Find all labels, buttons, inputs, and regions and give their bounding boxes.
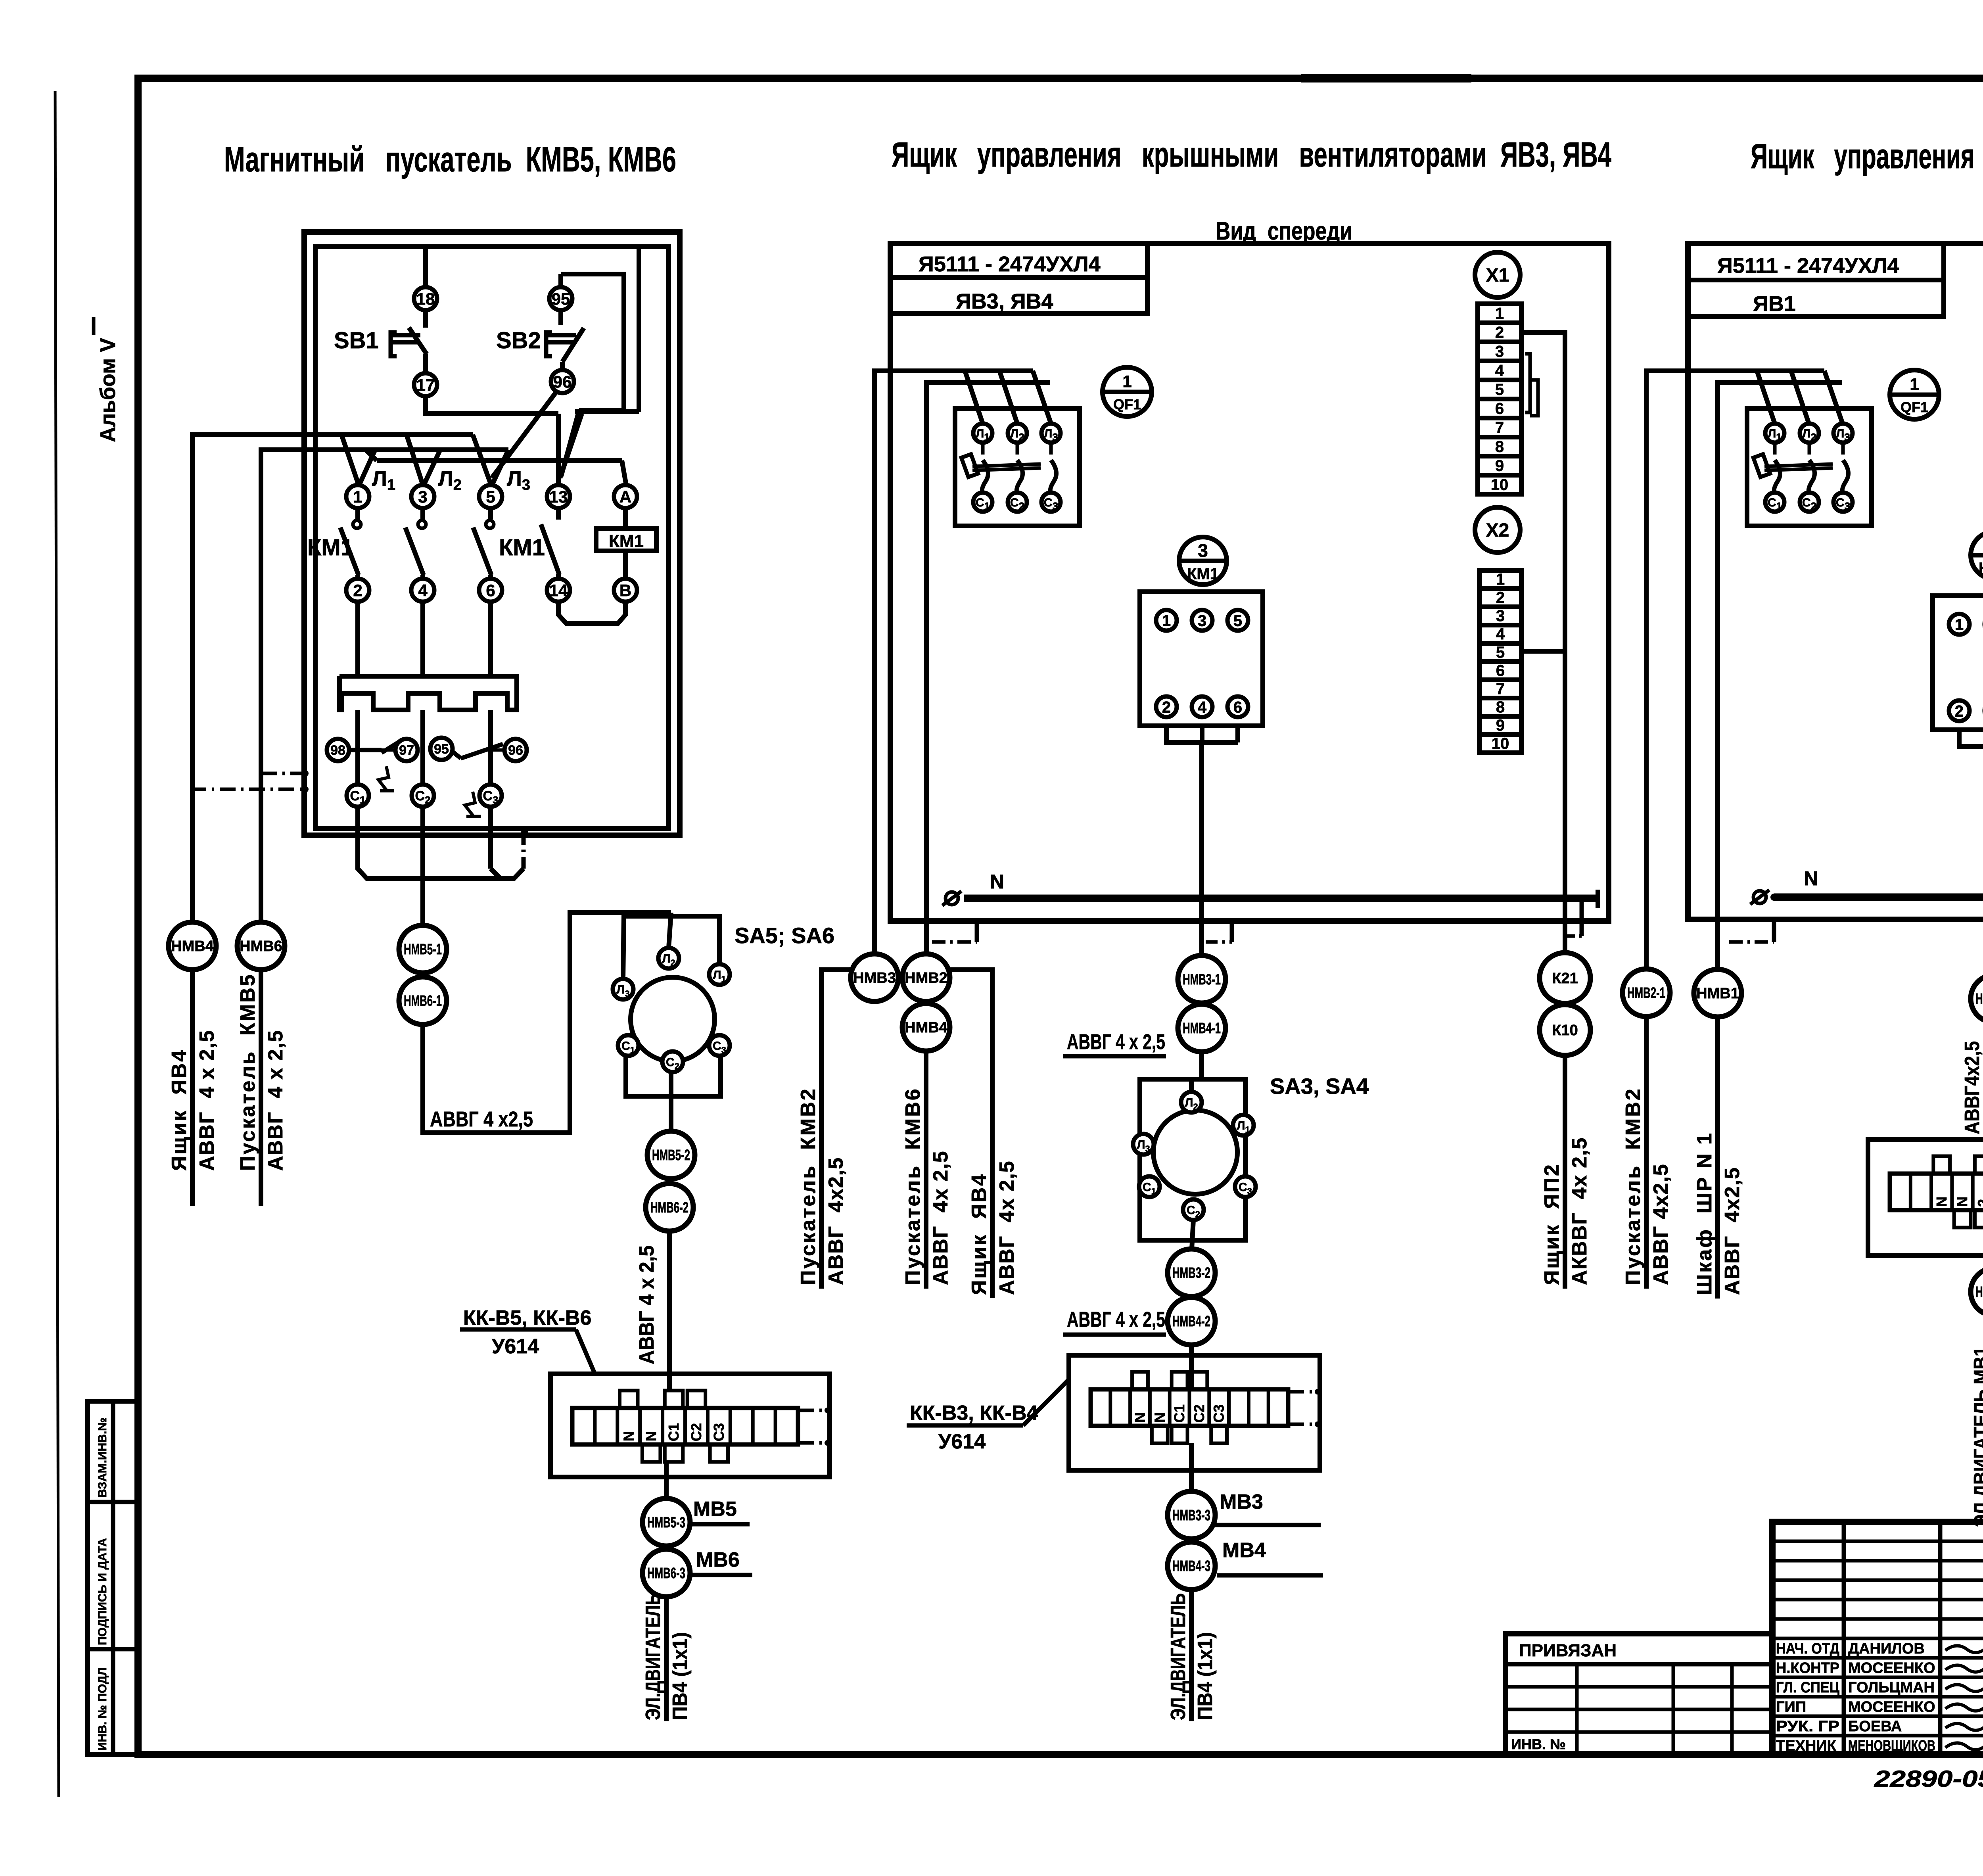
svg-text:НАЧ. ОТД: НАЧ. ОТД bbox=[1776, 1640, 1839, 1657]
svg-text:АВВГ 4х2,5: АВВГ 4х2,5 bbox=[825, 1157, 848, 1285]
svg-text:N: N bbox=[620, 1431, 637, 1441]
svg-text:НМВ4-1: НМВ4-1 bbox=[1183, 1020, 1221, 1037]
terminal 17 bbox=[414, 373, 437, 396]
svg-text:ПРИВЯЗАН: ПРИВЯЗАН bbox=[1519, 1641, 1617, 1660]
cable label Ящик ЯВ4 / АВВГ 4х2,5 bbox=[190, 970, 195, 1206]
junction dot on enclosure bottom bbox=[521, 829, 528, 836]
svg-text:2: 2 bbox=[353, 581, 362, 600]
svg-text:Ящик управления крышными: Ящик управления крышными вентиляторами Я… bbox=[892, 135, 1611, 174]
terminal 2 bbox=[346, 579, 369, 602]
N bus (middle cabinet) bbox=[964, 895, 1598, 902]
terminal 1 bbox=[346, 485, 369, 508]
terminal block КК-В5,КК-В6 У614 bbox=[550, 1374, 830, 1477]
svg-text:6: 6 bbox=[1496, 662, 1505, 679]
cable marker К10 bbox=[1540, 1005, 1590, 1055]
svg-text:4: 4 bbox=[418, 581, 428, 600]
svg-text:N: N bbox=[1954, 1197, 1970, 1207]
svg-text:ПВ4 (1х1): ПВ4 (1х1) bbox=[669, 1632, 692, 1720]
relay aux contact 98-97 (NC) bbox=[327, 739, 349, 761]
cable label Пускатель КМВ5 / АВВГ 4х2,5 bbox=[259, 970, 263, 1206]
svg-text:N: N bbox=[1151, 1412, 1168, 1423]
terminal 13 bbox=[547, 485, 570, 508]
N bus earth symbol (right) bbox=[1753, 891, 1766, 903]
svg-text:Альбом V: Альбом V bbox=[96, 338, 120, 442]
cabinet ЯВ1 outer box bbox=[1688, 244, 1983, 919]
svg-text:97: 97 bbox=[399, 743, 414, 758]
svg-text:Пускатель КМВ2: Пускатель КМВ2 bbox=[797, 1087, 820, 1285]
svg-text:ГЛ. СПЕЦ: ГЛ. СПЕЦ bbox=[1776, 1679, 1839, 1696]
cable marker НМВ6-2 bbox=[646, 1184, 693, 1231]
cable marker НМВ3-2 bbox=[1168, 1249, 1215, 1297]
svg-text:N: N bbox=[1804, 867, 1818, 890]
svg-text:1: 1 bbox=[1955, 616, 1964, 633]
svg-text:С2: С2 bbox=[1191, 1404, 1207, 1423]
wire to НМВ5-1 bbox=[420, 879, 425, 925]
terminal strip X2 (middle) bbox=[1479, 570, 1521, 753]
svg-text:НМВ4-3: НМВ4-3 bbox=[1172, 1558, 1210, 1575]
feed bus 3 to coil terminal A bbox=[377, 458, 622, 463]
cable marker НМВ4 bbox=[169, 922, 216, 970]
svg-text:N: N bbox=[990, 871, 1004, 893]
svg-text:НМВ3-3: НМВ3-3 bbox=[1172, 1507, 1210, 1524]
svg-text:У614: У614 bbox=[492, 1335, 539, 1358]
svg-text:Пускатель КМВ5: Пускатель КМВ5 bbox=[236, 973, 259, 1171]
svg-text:КМ1: КМ1 bbox=[499, 535, 545, 560]
svg-text:АВВГ 4 х2,5: АВВГ 4 х2,5 bbox=[430, 1107, 533, 1131]
svg-text:1: 1 bbox=[1162, 612, 1171, 629]
left margin stamp table bbox=[88, 1401, 138, 1755]
svg-text:5: 5 bbox=[1233, 612, 1242, 629]
svg-text:АВВГ 4х2,5: АВВГ 4х2,5 bbox=[1649, 1163, 1672, 1285]
cable marker НМВ6-3 bbox=[642, 1549, 690, 1597]
svg-text:МОСЕЕНКО: МОСЕЕНКО bbox=[1848, 1699, 1935, 1715]
svg-text:АВВГ 4 х 2,5: АВВГ 4 х 2,5 bbox=[264, 1030, 287, 1171]
feed bus 2 from cable НМВ6 bbox=[261, 450, 508, 922]
svg-text:SA5; SA6: SA5; SA6 bbox=[735, 923, 834, 948]
svg-text:ГИП: ГИП bbox=[1776, 1699, 1806, 1715]
wire block to НМВ3-3 bbox=[1189, 1470, 1194, 1492]
svg-text:НМВ3: НМВ3 bbox=[853, 970, 896, 986]
svg-text:6: 6 bbox=[486, 581, 495, 600]
cabinet ЯВ3/ЯВ4 outer box bbox=[890, 244, 1609, 921]
svg-text:Шкаф ШР N 1: Шкаф ШР N 1 bbox=[1693, 1132, 1716, 1295]
svg-text:1: 1 bbox=[1496, 571, 1505, 588]
cable marker НМВ3 bbox=[851, 954, 898, 1001]
cable marker НМВ4-1 bbox=[1178, 1004, 1225, 1052]
wire A to coil bbox=[623, 508, 628, 529]
svg-text:НМВ4: НМВ4 bbox=[171, 938, 214, 955]
wire К10 down / Ящик ЯП2 label bbox=[1563, 1055, 1567, 1289]
svg-text:ДАНИЛОВ: ДАНИЛОВ bbox=[1848, 1640, 1925, 1657]
cable marker НМВ3-1 bbox=[1178, 955, 1225, 1003]
svg-text:К21: К21 bbox=[1552, 970, 1578, 987]
junction tick on N bus bbox=[1563, 890, 1567, 898]
svg-text:3: 3 bbox=[1496, 607, 1505, 625]
svg-text:2: 2 bbox=[1495, 324, 1504, 341]
svg-text:НМВ5-1: НМВ5-1 bbox=[404, 941, 442, 958]
svg-text:НМВ3-1: НМВ3-1 bbox=[1183, 971, 1221, 988]
dash-dot cable boundary below cabinet (middle left) bbox=[975, 921, 979, 942]
svg-text:КК-В5, КК-В6: КК-В5, КК-В6 bbox=[463, 1306, 591, 1329]
thermal overload relay heater block bbox=[339, 676, 517, 710]
svg-text:НМВ2: НМВ2 bbox=[905, 970, 947, 986]
feed wire cable НМВ3 into cabinet bbox=[875, 371, 1033, 953]
contactor KM1 aux contact 13-14 bbox=[541, 508, 559, 579]
svg-text:22890-05: 22890-05 bbox=[1874, 1766, 1983, 1792]
terminal 18 bbox=[414, 287, 437, 310]
wire: 96 diagonal to terminal 5 bbox=[492, 392, 556, 478]
svg-text:17: 17 bbox=[416, 376, 435, 394]
svg-text:АКВВГ 4х 2,5: АКВВГ 4х 2,5 bbox=[1568, 1137, 1591, 1285]
dash-dot cable boundary below cabinet (middle centre) bbox=[1230, 921, 1234, 942]
svg-text:ЯВ1: ЯВ1 bbox=[1753, 292, 1796, 316]
svg-text:96: 96 bbox=[508, 743, 523, 758]
svg-text:Пускатель КМВ2: Пускатель КМВ2 bbox=[1622, 1087, 1645, 1285]
wire НМВ4-1 to switch SA3 bbox=[1199, 1052, 1204, 1079]
svg-text:КМ1: КМ1 bbox=[1187, 565, 1219, 583]
svg-text:10: 10 bbox=[1491, 476, 1509, 493]
svg-text:3: 3 bbox=[1495, 343, 1504, 360]
svg-text:АВВГ 4х2,5: АВВГ 4х2,5 bbox=[1721, 1167, 1744, 1295]
svg-text:МВ4: МВ4 bbox=[1222, 1539, 1266, 1562]
svg-text:9: 9 bbox=[1496, 717, 1505, 734]
wire НМВ4-2 to block КК-В3 bbox=[1189, 1345, 1194, 1391]
svg-text:X1: X1 bbox=[1486, 265, 1509, 286]
cable marker НМВ1-2 bbox=[1971, 1268, 1983, 1316]
svg-text:ЭЛ.ДВИГАТЕЛЬ МВ1: ЭЛ.ДВИГАТЕЛЬ МВ1 bbox=[1970, 1347, 1983, 1527]
terminal strip X1 (middle) bbox=[1478, 304, 1521, 494]
svg-text:ЭЛ.ДВИГАТЕЛЬ: ЭЛ.ДВИГАТЕЛЬ bbox=[642, 1593, 665, 1720]
paper left edge line bbox=[55, 91, 59, 1797]
terminal C1 bbox=[347, 785, 369, 807]
svg-text:Пускатель КМВ6: Пускатель КМВ6 bbox=[901, 1087, 924, 1285]
terminal block КК-В1 У614 bbox=[1868, 1139, 1983, 1256]
svg-text:МВ5: МВ5 bbox=[693, 1498, 737, 1521]
svg-text:КМ1: КМ1 bbox=[307, 535, 353, 560]
thermal symbol 1 bbox=[378, 766, 389, 791]
svg-text:К10: К10 bbox=[1552, 1022, 1578, 1039]
svg-text:КМ1: КМ1 bbox=[609, 531, 644, 551]
svg-text:НМВ5-3: НМВ5-3 bbox=[647, 1514, 685, 1531]
svg-text:9: 9 bbox=[1495, 457, 1504, 474]
svg-text:МВ3: МВ3 bbox=[1220, 1490, 1263, 1513]
wire НМВ4 drop bbox=[924, 1051, 928, 1289]
svg-text:НМВ1-2: НМВ1-2 bbox=[1975, 1284, 1983, 1301]
terminal C3 bbox=[479, 785, 502, 807]
terminal 14 bbox=[547, 579, 570, 602]
contactor KM1 with terminals (middle) bbox=[1140, 592, 1263, 726]
svg-text:1: 1 bbox=[1122, 372, 1131, 391]
stub top edge to Л2 (SA3) bbox=[1189, 1079, 1194, 1093]
svg-text:ГОЛЬЦМАН: ГОЛЬЦМАН bbox=[1848, 1679, 1935, 1696]
svg-text:КК-В3, КК-В4: КК-В3, КК-В4 bbox=[910, 1402, 1038, 1425]
feed wire cable НМВ2/НМВ4 into cabinet bbox=[926, 382, 1050, 953]
feed diagonals into breaker (right) bbox=[1757, 371, 1775, 424]
svg-text:1: 1 bbox=[1495, 305, 1504, 322]
N bus (right cabinet) bbox=[1774, 894, 1983, 901]
svg-text:5: 5 bbox=[1496, 644, 1505, 661]
wire stub НМВ3 to drop bbox=[821, 970, 850, 1289]
rotary switch SA3,SA4 bbox=[1153, 1110, 1237, 1194]
thermal symbol 2 bbox=[465, 792, 475, 816]
X1 connector hooks bbox=[1525, 354, 1530, 412]
terminal strip circle X2 (middle) bbox=[1475, 507, 1520, 552]
svg-text:2: 2 bbox=[1955, 702, 1964, 720]
svg-text:98: 98 bbox=[330, 743, 345, 758]
svg-text:ЭЛ.ДВИГАТЕЛЬ: ЭЛ.ДВИГАТЕЛЬ bbox=[1167, 1593, 1190, 1720]
wire X1 row2 to K21 bbox=[1521, 332, 1565, 953]
feed wire cable НМВ1 into cabinet (right) bbox=[1718, 382, 1842, 969]
svg-text:НМВ5-2: НМВ5-2 bbox=[652, 1147, 690, 1164]
inner bottom wire to SB2 area bbox=[426, 411, 557, 416]
cable marker НМВ6 bbox=[237, 922, 285, 970]
terminal block КК-В3,КК-В4 У614 bbox=[1069, 1355, 1320, 1470]
svg-text:2: 2 bbox=[1162, 698, 1171, 716]
relay aux contact 95-96 (NO) bbox=[430, 738, 453, 760]
terminal A bbox=[614, 485, 637, 508]
push-button SB1 (stop, NC) bbox=[391, 311, 427, 373]
type label box Я5111-2474УХЛ4 / ЯВ3,ЯВ4 bbox=[890, 244, 1147, 313]
terminal C2 bbox=[412, 785, 434, 807]
svg-text:У614: У614 bbox=[938, 1430, 986, 1453]
svg-text:7: 7 bbox=[1496, 680, 1505, 698]
terminal 4 bbox=[411, 579, 434, 602]
starter enclosure inner box bbox=[315, 247, 669, 829]
svg-text:КМ1: КМ1 bbox=[1979, 560, 1983, 577]
svg-text:МЕНОВЩИКОВ: МЕНОВЩИКОВ bbox=[1848, 1738, 1935, 1754]
svg-text:8: 8 bbox=[1496, 698, 1505, 716]
svg-text:А: А bbox=[619, 487, 631, 506]
wires through relay down to C terminals bbox=[355, 710, 360, 784]
terminal strip circle X1 (middle) bbox=[1475, 252, 1520, 297]
svg-text:18: 18 bbox=[416, 290, 435, 308]
cable marker НМВ2-1 bbox=[1622, 969, 1670, 1017]
svg-text:АВВГ 4 х 2,5: АВВГ 4 х 2,5 bbox=[635, 1245, 658, 1364]
type label box Я5111-2474УХЛ4 / ЯВ1 bbox=[1688, 244, 1944, 317]
wire to motor / эл.двигатель ПВ4(1х1) (middle) bbox=[1189, 1590, 1194, 1721]
terminal 5 bbox=[479, 485, 502, 508]
svg-text:НМВ6-3: НМВ6-3 bbox=[647, 1565, 685, 1582]
svg-text:НМВ1-1: НМВ1-1 bbox=[1975, 991, 1983, 1007]
svg-text:НМВ3-2: НМВ3-2 bbox=[1172, 1265, 1210, 1281]
svg-text:5: 5 bbox=[1495, 381, 1504, 398]
svg-text:SB1: SB1 bbox=[334, 328, 379, 353]
cable marker НМВ1 bbox=[1694, 969, 1741, 1017]
svg-text:НМВ6-2: НМВ6-2 bbox=[650, 1199, 688, 1216]
svg-text:7: 7 bbox=[1495, 419, 1504, 436]
svg-text:4: 4 bbox=[1496, 625, 1505, 643]
svg-text:N: N bbox=[1933, 1197, 1950, 1207]
feed bus 1 from cable НМВ4 bbox=[192, 435, 473, 922]
wire: 18 terminal up to inner box top bbox=[423, 247, 428, 287]
svg-text:3: 3 bbox=[1198, 612, 1206, 629]
cable marker НМВ5-1 bbox=[399, 925, 447, 973]
svg-text:МВ6: МВ6 bbox=[696, 1548, 740, 1571]
svg-text:Я5111 - 2474УХЛ4: Я5111 - 2474УХЛ4 bbox=[919, 252, 1101, 276]
title block outer box bbox=[1772, 1522, 1983, 1755]
dash-dot cable boundary below cabinet (middle right) bbox=[1580, 898, 1584, 936]
svg-text:95: 95 bbox=[434, 742, 449, 757]
svg-text:ИНВ. №: ИНВ. № bbox=[1511, 1736, 1566, 1752]
dash-dot cable boundary below cabinet (right left) bbox=[1772, 919, 1776, 942]
svg-text:БОЕВА: БОЕВА bbox=[1848, 1718, 1902, 1735]
svg-text:1: 1 bbox=[353, 487, 362, 506]
signatures (squiggles) bbox=[1945, 1644, 1983, 1652]
svg-text:АВВГ4х2,5: АВВГ4х2,5 bbox=[1961, 1041, 1983, 1134]
svg-text:Я5111 - 2474УХЛ4: Я5111 - 2474УХЛ4 bbox=[1717, 254, 1899, 278]
terminal 6 bbox=[479, 579, 502, 602]
svg-text:1: 1 bbox=[1910, 375, 1919, 393]
rotary switch SA5;SA6 bbox=[631, 977, 715, 1061]
wire to terminal block КК-В5 bbox=[667, 1231, 672, 1390]
cable marker НМВ5-3 bbox=[642, 1498, 690, 1546]
svg-text:N: N bbox=[1132, 1412, 1148, 1423]
cable marker НМВ2 bbox=[902, 954, 950, 1001]
contactor KM1 with terminals (right) bbox=[1933, 596, 1983, 730]
coil KM1 box bbox=[596, 529, 656, 551]
dash-dot cable boundary marks (left) bbox=[261, 772, 307, 775]
svg-text:НМВ2-1: НМВ2-1 bbox=[1627, 985, 1665, 1001]
cable marker НМВ4-2 bbox=[1168, 1297, 1215, 1345]
wire block to НМВ5-3 bbox=[664, 1477, 669, 1499]
wire: 13 V-drop bbox=[556, 414, 561, 485]
svg-text:С3: С3 bbox=[1211, 1404, 1227, 1423]
feed diagonals into breaker bbox=[965, 371, 983, 424]
svg-text:Ящик ЯП2: Ящик ЯП2 bbox=[1540, 1163, 1563, 1285]
cable marker НМВ5-2 bbox=[647, 1131, 695, 1179]
svg-text:В: В bbox=[619, 581, 631, 600]
wires from 2,4,6 down to thermal relay bbox=[355, 602, 360, 676]
rotary switch SA5 frame bbox=[669, 913, 671, 948]
svg-text:Ящик ЯВ4: Ящик ЯВ4 bbox=[968, 1173, 991, 1295]
output bus with chamfers bbox=[358, 807, 524, 879]
svg-text:НМВ4-2: НМВ4-2 bbox=[1172, 1313, 1210, 1330]
svg-text:6: 6 bbox=[1233, 698, 1242, 716]
svg-text:НМВ6-1: НМВ6-1 bbox=[404, 993, 442, 1009]
svg-text:НМВ6: НМВ6 bbox=[240, 938, 282, 955]
svg-text:10: 10 bbox=[1492, 735, 1509, 752]
svg-text:8: 8 bbox=[1495, 438, 1504, 455]
svg-text:С2: С2 bbox=[688, 1423, 704, 1441]
cable marker НМВ4 bbox=[902, 1003, 950, 1051]
svg-text:QF1: QF1 bbox=[1113, 396, 1141, 412]
svg-text:4: 4 bbox=[1198, 698, 1207, 716]
wire: inner loop right side bbox=[637, 247, 641, 412]
wire to motor / label эл.двигатель ПВ4(1х1) bbox=[664, 1597, 669, 1721]
svg-text:3: 3 bbox=[1198, 540, 1208, 561]
svg-text:95: 95 bbox=[552, 290, 570, 308]
svg-text:6: 6 bbox=[1495, 400, 1504, 417]
svg-text:5: 5 bbox=[486, 487, 495, 506]
svg-text:N: N bbox=[643, 1431, 659, 1441]
svg-text:НМВ4: НМВ4 bbox=[905, 1019, 947, 1036]
cable marker НМВ4-3 bbox=[1168, 1542, 1215, 1590]
svg-text:SA3, SA4: SA3, SA4 bbox=[1270, 1074, 1369, 1099]
wire: 17 to terminal 13 (bottom run) bbox=[426, 396, 558, 414]
svg-text:РУК. ГР: РУК. ГР bbox=[1776, 1718, 1839, 1735]
cable marker НМВ3-3 bbox=[1168, 1491, 1215, 1539]
svg-text:13: 13 bbox=[549, 487, 568, 506]
svg-text:QF1: QF1 bbox=[1901, 399, 1928, 415]
svg-text:ЯВ3, ЯВ4: ЯВ3, ЯВ4 bbox=[956, 290, 1053, 313]
terminal B bbox=[614, 579, 637, 602]
wire НМВ6-1 down and over to switch SA5 bbox=[423, 913, 671, 1133]
svg-text:АВВГ 4х 2,5: АВВГ 4х 2,5 bbox=[929, 1150, 952, 1285]
wire X2 row5 to K21 drop bbox=[1521, 649, 1565, 654]
wire coil to B bbox=[623, 551, 628, 579]
svg-text:АВВГ 4х 2,5: АВВГ 4х 2,5 bbox=[995, 1160, 1018, 1295]
circuit breaker QF1 (middle cabinet) bbox=[955, 409, 1080, 526]
svg-text:НМВ1: НМВ1 bbox=[1696, 985, 1739, 1002]
scan smudge on top border bbox=[1301, 74, 1471, 82]
svg-text:АВВГ 4 х 2,5: АВВГ 4 х 2,5 bbox=[196, 1030, 219, 1171]
cable marker НМВ6-1 bbox=[399, 977, 447, 1024]
wire SA3 to НМВ3-2 bbox=[1192, 1220, 1193, 1249]
terminal 3 bbox=[411, 485, 434, 508]
wire stub НМВ2 to drop bbox=[950, 970, 992, 1298]
svg-text:МОСЕЕНКО: МОСЕЕНКО bbox=[1848, 1660, 1935, 1677]
svg-text:X2: X2 bbox=[1486, 520, 1509, 541]
svg-text:2: 2 bbox=[1975, 1199, 1983, 1207]
svg-text:С3: С3 bbox=[711, 1423, 727, 1441]
wire НМВ2-1 drop bbox=[1644, 1017, 1649, 1289]
circuit breaker QF1 (right cabinet) bbox=[1747, 409, 1872, 526]
feed wire cable НМВ2-1 into cabinet (right) bbox=[1646, 371, 1824, 968]
svg-text:ИНВ. № ПОДЛ: ИНВ. № ПОДЛ bbox=[96, 1667, 109, 1751]
svg-text:96: 96 bbox=[553, 372, 572, 391]
svg-text:Н.КОНТР: Н.КОНТР bbox=[1776, 1660, 1839, 1677]
wire 14-B U-link bbox=[558, 602, 625, 623]
svg-text:С1: С1 bbox=[1171, 1404, 1187, 1423]
svg-text:3: 3 bbox=[418, 487, 427, 506]
svg-text:АВВГ 4 х 2,5: АВВГ 4 х 2,5 bbox=[1067, 1308, 1165, 1331]
svg-text:4: 4 bbox=[1495, 362, 1504, 379]
svg-text:Ящик управления вытяжным: Ящик управления вытяжным вентилятором ЯВ… bbox=[1751, 136, 1983, 176]
svg-text:2: 2 bbox=[1496, 589, 1505, 606]
привязан table bbox=[1505, 1634, 1772, 1755]
terminal 96 bbox=[551, 370, 574, 393]
contactor KM1 main contacts bbox=[340, 508, 361, 579]
N bus earth symbol bbox=[945, 892, 958, 905]
svg-text:ТЕХНИК: ТЕХНИК bbox=[1776, 1738, 1837, 1754]
svg-text:ВЗАМ.ИНВ.№: ВЗАМ.ИНВ.№ bbox=[96, 1418, 109, 1498]
starter enclosure outer box bbox=[304, 232, 680, 835]
wire НМВ1 drop bbox=[1715, 1017, 1720, 1299]
svg-text:АВВГ 4 х 2,5: АВВГ 4 х 2,5 bbox=[1067, 1030, 1165, 1054]
cable marker К21 bbox=[1540, 953, 1590, 1003]
cable marker НМВ1-1 bbox=[1971, 975, 1983, 1022]
svg-text:ПОДПИСЬ И ДАТА: ПОДПИСЬ И ДАТА bbox=[96, 1538, 109, 1645]
svg-text:Ящик ЯВ4: Ящик ЯВ4 bbox=[168, 1049, 191, 1171]
wire KM1 to N-bus crossing and НМВ3-1 bbox=[1199, 742, 1204, 955]
svg-text:ПВ4 (1х1): ПВ4 (1х1) bbox=[1194, 1632, 1217, 1720]
push-button SB2 (start, NO) with bypass loop bbox=[549, 287, 572, 310]
title block signature grid bbox=[1772, 1522, 1983, 1755]
svg-text:SB2: SB2 bbox=[496, 328, 541, 353]
svg-text:С1: С1 bbox=[665, 1423, 682, 1441]
svg-text:Магнитный пускатель КМВ5, К: Магнитный пускатель КМВ5, КМВ6 bbox=[224, 140, 676, 179]
rotary switch SA3/SA4 frame bbox=[1140, 1079, 1245, 1240]
svg-text:14: 14 bbox=[549, 581, 568, 600]
